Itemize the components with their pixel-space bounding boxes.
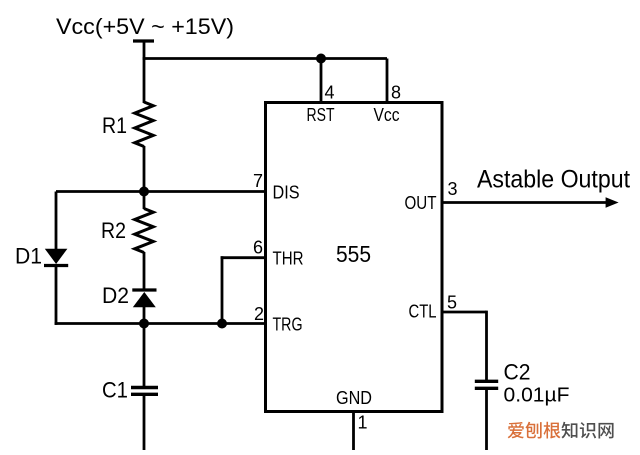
IC 555 body (266, 103, 443, 412)
wire: C1 to bottom edge (143, 395, 146, 451)
wire: R2 to D2 (143, 252, 146, 291)
capacitor C2 (475, 381, 498, 388)
watermark character 识 (580, 422, 596, 438)
wire: DIS node down to R2 (143, 192, 146, 210)
svg-text:1: 1 (358, 413, 368, 433)
wire: R1 to DIS node (143, 146, 146, 193)
wire: D2 to TRG node (143, 306, 146, 325)
svg-text:TRG: TRG (273, 314, 303, 335)
watermark character 知 (561, 422, 577, 439)
capacitor C1 (131, 388, 158, 395)
svg-text:D1: D1 (15, 244, 42, 269)
svg-text:0.01µF: 0.01µF (504, 385, 570, 407)
resistor R2 (135, 209, 154, 253)
wire: pin 4 stub (320, 59, 323, 104)
svg-text:C1: C1 (102, 378, 128, 403)
svg-text:C2: C2 (504, 360, 531, 385)
diode D2 (132, 290, 156, 307)
svg-text:R2: R2 (101, 218, 126, 243)
watermark character 网 (598, 423, 613, 439)
wire: TRG node down to C1 (143, 324, 146, 388)
wire: CTL (pin 5) horizontal (442, 311, 487, 314)
svg-text:555: 555 (336, 241, 371, 267)
wire: left branch down to D1 (55, 192, 58, 251)
svg-text:3: 3 (448, 179, 458, 199)
Vcc supply terminal (133, 39, 154, 42)
svg-text:GND: GND (336, 387, 372, 408)
wire: THR horizontal (pin 6) (221, 256, 266, 259)
svg-text:2: 2 (254, 304, 264, 324)
junction: TRG node at C1 rail (139, 319, 149, 329)
svg-text:4: 4 (325, 83, 335, 103)
svg-text:DIS: DIS (273, 182, 300, 203)
wire: OUT (pin 3) to arrow (442, 201, 608, 204)
wire: DIS horizontal (pin 7) (56, 190, 266, 193)
wire: TRG horizontal (pin 2) (55, 322, 266, 325)
junction: TRG / THR branch (217, 319, 227, 329)
wire: top rail from Vcc rail to pin 8 (143, 57, 387, 60)
watermark character 刨 (525, 422, 541, 439)
resistor R1 (135, 102, 154, 147)
svg-text:Astable Output: Astable Output (477, 166, 630, 194)
svg-text:6: 6 (253, 238, 263, 258)
svg-text:7: 7 (253, 171, 263, 191)
svg-text:D2: D2 (102, 283, 129, 308)
wire: pin 8 stub (386, 59, 389, 104)
svg-text:5: 5 (447, 293, 457, 313)
watermark character 根 (544, 422, 561, 439)
wire: THR branch vertical (221, 256, 224, 323)
svg-text:8: 8 (391, 83, 401, 103)
svg-text:OUT: OUT (405, 192, 437, 213)
svg-text:Vcc(+5V ~ +15V): Vcc(+5V ~ +15V) (56, 14, 234, 39)
wire: D1 to TRG rail (55, 265, 58, 325)
junction: top rail / pin 4 (316, 54, 326, 64)
wire: GND pin 1 stub (352, 412, 355, 451)
wire: Vcc terminal down to R1 (143, 41, 146, 103)
output arrowhead (606, 197, 619, 208)
diode D1 (44, 249, 68, 266)
watermark character 爱 (508, 422, 524, 438)
wire: C2 to bottom edge (485, 389, 488, 451)
svg-text:R1: R1 (102, 113, 127, 138)
svg-text:RST: RST (307, 104, 335, 125)
svg-text:CTL: CTL (409, 301, 437, 322)
svg-text:THR: THR (273, 248, 304, 269)
junction: DIS node (139, 187, 149, 197)
wire: CTL down to C2 (485, 311, 488, 381)
svg-text:Vcc: Vcc (374, 104, 400, 125)
